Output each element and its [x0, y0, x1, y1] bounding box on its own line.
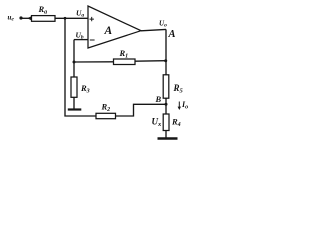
- svg-text:A: A: [168, 29, 176, 40]
- resistor Ra: [27, 4, 55, 21]
- wire: [135, 60, 166, 63]
- wire: [74, 39, 88, 41]
- ground: [158, 137, 178, 139]
- resistor R3: [71, 77, 90, 97]
- wire: [165, 98, 167, 114]
- wire: [55, 17, 88, 19]
- svg-text:B: B: [155, 94, 162, 104]
- node B: [155, 94, 168, 106]
- current arrow Io: [178, 100, 189, 111]
- wire: [165, 131, 167, 138]
- wire: [65, 115, 96, 117]
- wire: [73, 40, 75, 77]
- node junction at + input: [64, 17, 67, 20]
- wire: [74, 61, 114, 63]
- wire: [116, 104, 167, 116]
- input terminal ue: [8, 14, 23, 23]
- resistor R4: [163, 114, 180, 131]
- wire: [141, 29, 166, 30]
- op-amp U1: [88, 6, 141, 48]
- resistor R5: [163, 75, 183, 98]
- wire: [64, 18, 66, 116]
- svg-text:A: A: [104, 25, 113, 37]
- wire: [73, 97, 75, 108]
- node junction: [73, 61, 76, 64]
- wire: [21, 17, 32, 19]
- resistor R2: [96, 102, 116, 119]
- resistor R1: [114, 48, 136, 65]
- wire: [165, 29, 167, 74]
- node junction: [164, 59, 167, 62]
- ground: [68, 108, 82, 110]
